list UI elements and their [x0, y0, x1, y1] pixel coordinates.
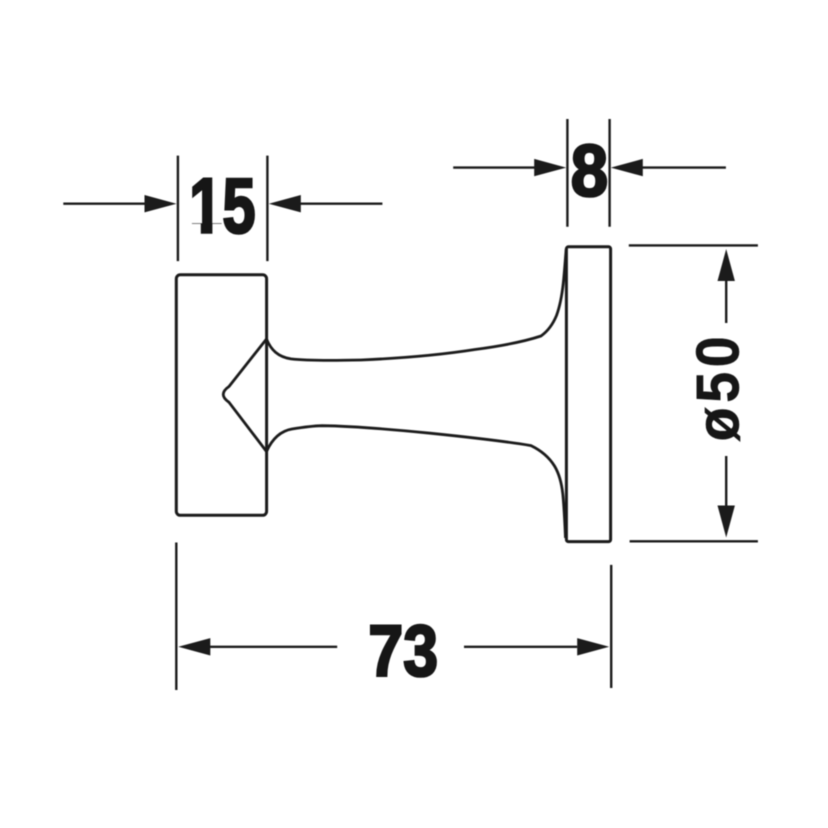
dim 8: right arrow (points left) — [611, 159, 643, 176]
dim 15: left leader line — [63, 202, 146, 204]
white patches hiding the serif foot of digit 1 (target font has no foot) — [190, 224, 201, 237]
dim 8: left extension line — [566, 119, 568, 227]
dim 8: left leader line — [453, 166, 536, 168]
dim 8: right leader line — [642, 166, 726, 168]
knob front plate (left rectangle of hook) — [176, 275, 266, 516]
dim ø50: up arrow (points up) — [718, 249, 735, 281]
dim ø50: bottom extension line — [630, 540, 758, 542]
wall mounting plate (right rectangle of hook) — [566, 247, 610, 542]
dim 15: left extension line — [177, 156, 179, 262]
dim 73: right extension line — [610, 565, 612, 688]
svg-text:ø50: ø50 — [684, 332, 752, 442]
dim ø50: down arrow (points down) — [718, 506, 735, 538]
dim ø50: upper dimension line segment — [725, 278, 727, 323]
dim ø50: top extension line — [629, 244, 758, 246]
stem top edge curve — [267, 249, 567, 360]
dim 73: right dimension line segment — [464, 646, 577, 648]
dim 8: right extension line — [608, 119, 610, 227]
dim ø50: lower dimension line segment — [725, 456, 727, 509]
dim 15: left arrow (points right) — [145, 195, 177, 212]
dim 15: right arrow (points left) — [269, 195, 301, 212]
stem bottom edge curve — [267, 426, 566, 538]
dim 73: right arrow (points right) — [577, 638, 609, 655]
dim 73: left arrow (points left) — [178, 638, 210, 655]
dim 8: left arrow (points right) — [534, 159, 566, 176]
dim 15: right leader line — [300, 202, 383, 204]
svg-text:8: 8 — [571, 130, 608, 211]
stem cone V profile at knob — [223, 339, 266, 452]
svg-text:73: 73 — [368, 612, 438, 692]
dim 73: left dimension line segment — [209, 646, 337, 648]
dim 73: left extension line — [175, 543, 177, 691]
dim 15: right extension line — [266, 156, 268, 262]
